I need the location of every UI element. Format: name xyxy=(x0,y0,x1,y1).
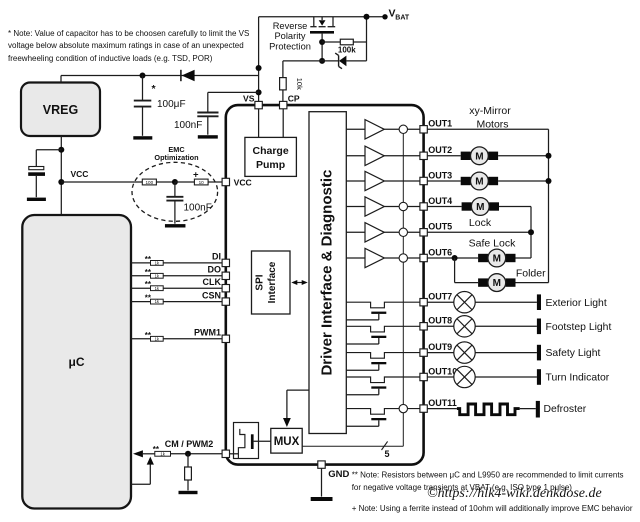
wire CSN xyxy=(131,301,151,303)
svg-text:+: + xyxy=(193,170,199,181)
wire safe lock right xyxy=(516,257,532,259)
pin OUT9 xyxy=(420,349,427,356)
terminal bar Turn Indicator xyxy=(537,369,541,385)
node OUT2/common xyxy=(546,153,552,159)
wire VBAT right vertical xyxy=(366,17,368,61)
pin OUT2 xyxy=(420,152,427,159)
svg-text:**: ** xyxy=(145,331,152,340)
diode Z1 zener xyxy=(322,60,339,62)
svg-text:BAT: BAT xyxy=(395,14,410,21)
wire PWM1 xyxy=(131,338,151,340)
lamp Turn Indicator xyxy=(427,376,454,378)
heater Defroster xyxy=(427,408,457,410)
svg-text:μC: μC xyxy=(68,355,84,369)
svg-text:PWM1: PWM1 xyxy=(194,328,221,338)
wire VREG to uC xyxy=(60,136,62,215)
pin OUT5 xyxy=(420,229,427,236)
pin VS xyxy=(255,101,262,108)
svg-text:OUT4: OUT4 xyxy=(428,196,452,206)
pin VCC xyxy=(222,178,229,185)
capacitor VCC electrolytic xyxy=(29,167,44,170)
svg-text:GND: GND xyxy=(328,469,349,480)
wire OUT3 xyxy=(427,180,460,182)
svg-text:5: 5 xyxy=(385,449,390,459)
pin OUT6 xyxy=(420,254,427,261)
block current sense xyxy=(234,423,259,459)
resistor 1k (CM/PWM2) xyxy=(155,451,171,456)
node CM junction xyxy=(185,451,191,457)
svg-text:Reverse: Reverse xyxy=(273,21,308,31)
node sense circle xyxy=(399,228,407,236)
pin DI xyxy=(222,259,229,266)
svg-text:CSN: CSN xyxy=(202,290,221,300)
svg-text:Safe Lock: Safe Lock xyxy=(469,237,516,249)
ground GND pin xyxy=(311,497,333,501)
ground 100uF xyxy=(133,136,152,139)
node sense circle xyxy=(399,202,407,210)
wire M11 gate xyxy=(378,420,380,426)
svg-text:©https://hlk4-wiki.denkdose.de: ©https://hlk4-wiki.denkdose.de xyxy=(427,486,602,501)
pin GND xyxy=(318,461,325,468)
EMC optimization dashed ellipse xyxy=(132,162,218,221)
pin OUT11 xyxy=(420,405,427,412)
node OUT5/lock xyxy=(528,229,534,235)
wire OUT2 to pin xyxy=(384,155,420,157)
svg-text:MUX: MUX xyxy=(274,436,300,448)
terminal bar Exterior Light xyxy=(537,294,541,310)
svg-text:CLK: CLK xyxy=(203,277,222,287)
svg-text:Safety Light: Safety Light xyxy=(546,348,601,359)
svg-text:Folder: Folder xyxy=(516,267,546,279)
resistor CM to gnd xyxy=(187,454,189,467)
terminal bar Defroster xyxy=(536,401,540,418)
op-amp driver OUT3 xyxy=(346,180,365,182)
svg-text:VCC: VCC xyxy=(71,169,89,179)
resistor 1k (CSN) xyxy=(151,299,164,304)
node VBAT terminal xyxy=(382,14,387,19)
svg-text:Optimization: Optimization xyxy=(154,153,198,162)
pin OUT8 xyxy=(420,323,427,330)
motor M xy-mirror 2 xyxy=(461,177,471,185)
wire folder right xyxy=(516,282,549,284)
resistor 1k (PWM1) xyxy=(151,336,164,341)
diode D1 xyxy=(180,70,182,81)
svg-text:* Note: Value of capacitor has: * Note: Value of capacitor has to be cho… xyxy=(8,29,249,38)
wire CP pin to charge pump xyxy=(282,109,284,138)
svg-text:OUT11: OUT11 xyxy=(428,398,457,408)
svg-text:CM / PWM2: CM / PWM2 xyxy=(165,439,214,449)
svg-text:Pump: Pump xyxy=(256,159,285,171)
svg-text:**: ** xyxy=(153,445,160,454)
wire OUT1 to mirror common xyxy=(427,128,548,130)
terminal bar Safety Light xyxy=(537,345,541,361)
lamp Footstep Light xyxy=(427,325,454,327)
motor M xy-mirror 1 xyxy=(461,152,471,160)
node 100k/VBAT junction xyxy=(364,14,370,20)
wire folder branch xyxy=(454,258,456,283)
svg-text:VCC: VCC xyxy=(234,177,252,187)
resistor 10 (EMC) xyxy=(194,179,208,185)
svg-text:OUT7: OUT7 xyxy=(428,292,452,302)
svg-text:Charge: Charge xyxy=(253,145,289,157)
svg-text:Footstep Light: Footstep Light xyxy=(546,322,612,333)
svg-text:M: M xyxy=(493,254,501,265)
wire sense to MUX xyxy=(254,440,271,442)
wire OUT5 xyxy=(427,231,531,233)
transistor Q1 reverse polarity PMOS xyxy=(313,17,315,26)
svg-text:Motors: Motors xyxy=(476,118,508,130)
wire OUT3 to pin xyxy=(384,180,420,182)
node gate/100k junction xyxy=(319,39,325,45)
block Charge Pump xyxy=(245,137,297,176)
svg-text:10: 10 xyxy=(199,180,205,185)
block Driver Interface & Diagnostic xyxy=(309,112,346,434)
svg-text:M: M xyxy=(475,177,483,188)
lamp Safety Light xyxy=(427,352,454,354)
wire OUT4 xyxy=(427,206,461,208)
wire VCC line xyxy=(61,181,142,183)
lamp Exterior Light xyxy=(427,301,454,303)
pin OUT1 xyxy=(420,126,427,133)
transistor M7 (OUT7 low-side) xyxy=(346,302,420,308)
node zener junction xyxy=(319,58,325,64)
op-amp driver OUT1 xyxy=(346,128,365,130)
regulator VREG xyxy=(21,83,100,137)
node cap branch xyxy=(58,147,64,153)
resistor 10k xyxy=(280,78,287,90)
svg-text:Turn Indicator: Turn Indicator xyxy=(546,373,610,384)
wire GND xyxy=(321,468,323,496)
motor M folder xyxy=(478,278,488,286)
svg-text:OUT10: OUT10 xyxy=(428,366,457,376)
op-amp driver OUT6 xyxy=(346,257,365,259)
wire VBAT top line xyxy=(259,16,385,18)
svg-text:Polarity: Polarity xyxy=(274,31,305,41)
transistor M10 (OUT10 low-side) xyxy=(346,377,420,383)
svg-text:+ Note: Using a ferrite instea: + Note: Using a ferrite instead of 10ohm… xyxy=(352,504,633,513)
label bus width 5 xyxy=(382,441,388,450)
wire VREG top to VS line xyxy=(60,76,62,83)
ground VCC cap xyxy=(27,198,46,201)
node 100uF tap xyxy=(140,73,146,79)
wire PWM2 out xyxy=(131,483,150,485)
wire OUT4 to pin xyxy=(384,206,420,208)
node VS upper xyxy=(256,65,262,71)
svg-text:M: M xyxy=(476,202,484,213)
svg-text:voltage below absolute maximum: voltage below absolute maximum ratings i… xyxy=(8,41,244,50)
wire OUT5 to pin xyxy=(384,231,420,233)
node VCC line tap xyxy=(58,179,64,185)
svg-text:M: M xyxy=(493,278,501,289)
wire CM/PWM2 xyxy=(133,450,143,457)
block MUX xyxy=(271,428,302,453)
svg-text:xy-Mirror: xy-Mirror xyxy=(469,105,511,117)
node sense circle xyxy=(399,254,407,262)
svg-text:100nF: 100nF xyxy=(174,120,202,131)
pin CLK xyxy=(222,285,229,292)
svg-text:Protection: Protection xyxy=(269,42,311,52)
transistor M9 (OUT9 low-side) xyxy=(346,353,420,359)
svg-text:**: ** xyxy=(145,255,152,264)
resistor 100k xyxy=(322,41,340,43)
svg-text:Defroster: Defroster xyxy=(544,404,587,415)
svg-text:VREG: VREG xyxy=(43,103,78,117)
ground CM resistor xyxy=(179,491,198,494)
wire cap branch xyxy=(36,149,61,151)
wire VS vertical xyxy=(258,17,260,105)
op-amp driver OUT5 xyxy=(346,231,365,233)
svg-text:** Note: Resistors between μC: ** Note: Resistors between μC and L9950 … xyxy=(352,470,624,479)
capacitor 100nF (EMC) xyxy=(174,182,176,196)
svg-text:SPI: SPI xyxy=(255,274,266,290)
svg-text:OUT8: OUT8 xyxy=(428,316,452,326)
pin CP xyxy=(280,101,287,108)
node OUT3/common xyxy=(546,178,552,184)
wire CM pin into sense block xyxy=(230,453,239,455)
microcontroller uC xyxy=(22,215,131,509)
svg-text:Driver Interface & Diagnostic: Driver Interface & Diagnostic xyxy=(319,170,336,376)
wire VS supply line xyxy=(61,75,259,77)
pin OUT4 xyxy=(420,203,427,210)
motor M lock xyxy=(462,202,472,210)
wire lock motor to OUT5 xyxy=(499,206,531,208)
resistor 100 (EMC) xyxy=(142,179,156,185)
wire diagnostic sense bus xyxy=(402,129,404,446)
svg-text:100k: 100k xyxy=(338,46,356,55)
capacitor 100nF (VS) xyxy=(208,91,259,93)
node OUT6/folder xyxy=(452,255,458,261)
node sense circle xyxy=(399,125,407,133)
pin PWM1 xyxy=(222,335,229,342)
wire Q1 gate lead xyxy=(321,34,323,61)
pin OUT3 xyxy=(420,177,427,184)
svg-text:OUT9: OUT9 xyxy=(428,342,452,352)
resistor 1k (DO) xyxy=(151,273,164,278)
node 100nF tap xyxy=(256,89,262,95)
arrow SPI to driver (bidirectional) xyxy=(295,282,305,284)
svg-text:OUT1: OUT1 xyxy=(428,119,452,129)
wire VS pin to charge pump xyxy=(258,109,260,138)
svg-text:100nF: 100nF xyxy=(184,202,212,213)
resistor 1k (DI) xyxy=(151,261,164,266)
terminal bar Footstep Light xyxy=(537,319,541,335)
wire M7 gate xyxy=(378,314,380,320)
node sense circle xyxy=(399,404,407,412)
pin OUT10 xyxy=(420,373,427,380)
svg-text:CP: CP xyxy=(288,94,300,104)
pin OUT7 xyxy=(420,299,427,306)
transistor sense symbol xyxy=(238,429,245,459)
resistor 1k (CLK) xyxy=(151,286,164,291)
svg-text:10k: 10k xyxy=(295,78,304,90)
capacitor 100uF xyxy=(142,76,144,101)
svg-text:M: M xyxy=(475,151,483,162)
pin CSN xyxy=(222,298,229,305)
ground EMC cap xyxy=(165,224,186,227)
transistor M11 (OUT11 low-side) xyxy=(346,409,420,415)
wire M10 gate xyxy=(378,389,380,395)
wire OUT6 xyxy=(427,257,478,259)
svg-text:100: 100 xyxy=(145,180,153,185)
wire M9 gate xyxy=(378,364,380,370)
svg-text:**: ** xyxy=(145,280,152,289)
wire OUT6 to pin xyxy=(384,257,420,259)
svg-text:OUT3: OUT3 xyxy=(428,170,452,180)
op-amp driver OUT4 xyxy=(346,206,365,208)
wire CLK xyxy=(131,287,151,289)
svg-text:DO: DO xyxy=(208,265,222,275)
wire M8 gate xyxy=(378,338,380,344)
IC L9950 body xyxy=(226,105,424,465)
wire DO xyxy=(131,275,151,277)
motor M safe lock xyxy=(478,254,488,262)
wire OUT1 to pin xyxy=(384,128,420,130)
pin CM/PWM2 xyxy=(222,450,229,457)
arrow driver to MUX xyxy=(287,389,309,391)
wire DI xyxy=(131,262,151,264)
wire OUT2 xyxy=(427,155,460,157)
svg-text:DI: DI xyxy=(212,252,221,262)
svg-text:Exterior Light: Exterior Light xyxy=(546,298,607,309)
node EMC junction xyxy=(172,179,178,185)
svg-text:OUT6: OUT6 xyxy=(428,247,452,257)
svg-text:**: ** xyxy=(145,294,152,303)
svg-text:VS: VS xyxy=(243,94,255,104)
svg-text:**: ** xyxy=(145,268,152,277)
pin DO xyxy=(222,272,229,279)
svg-text:Lock: Lock xyxy=(469,217,492,229)
svg-text:100μF: 100μF xyxy=(157,99,186,110)
ground 100nF xyxy=(198,135,218,138)
svg-text:freewheeling condition of indu: freewheeling condition of inductive load… xyxy=(8,54,213,63)
svg-text:Interface: Interface xyxy=(267,261,278,303)
wire CP branch xyxy=(283,60,322,62)
op-amp driver OUT2 xyxy=(346,155,365,157)
svg-text:OUT2: OUT2 xyxy=(428,145,452,155)
svg-text:OUT5: OUT5 xyxy=(428,222,452,232)
block SPI Interface xyxy=(252,251,291,314)
transistor M8 (OUT8 low-side) xyxy=(346,326,420,332)
